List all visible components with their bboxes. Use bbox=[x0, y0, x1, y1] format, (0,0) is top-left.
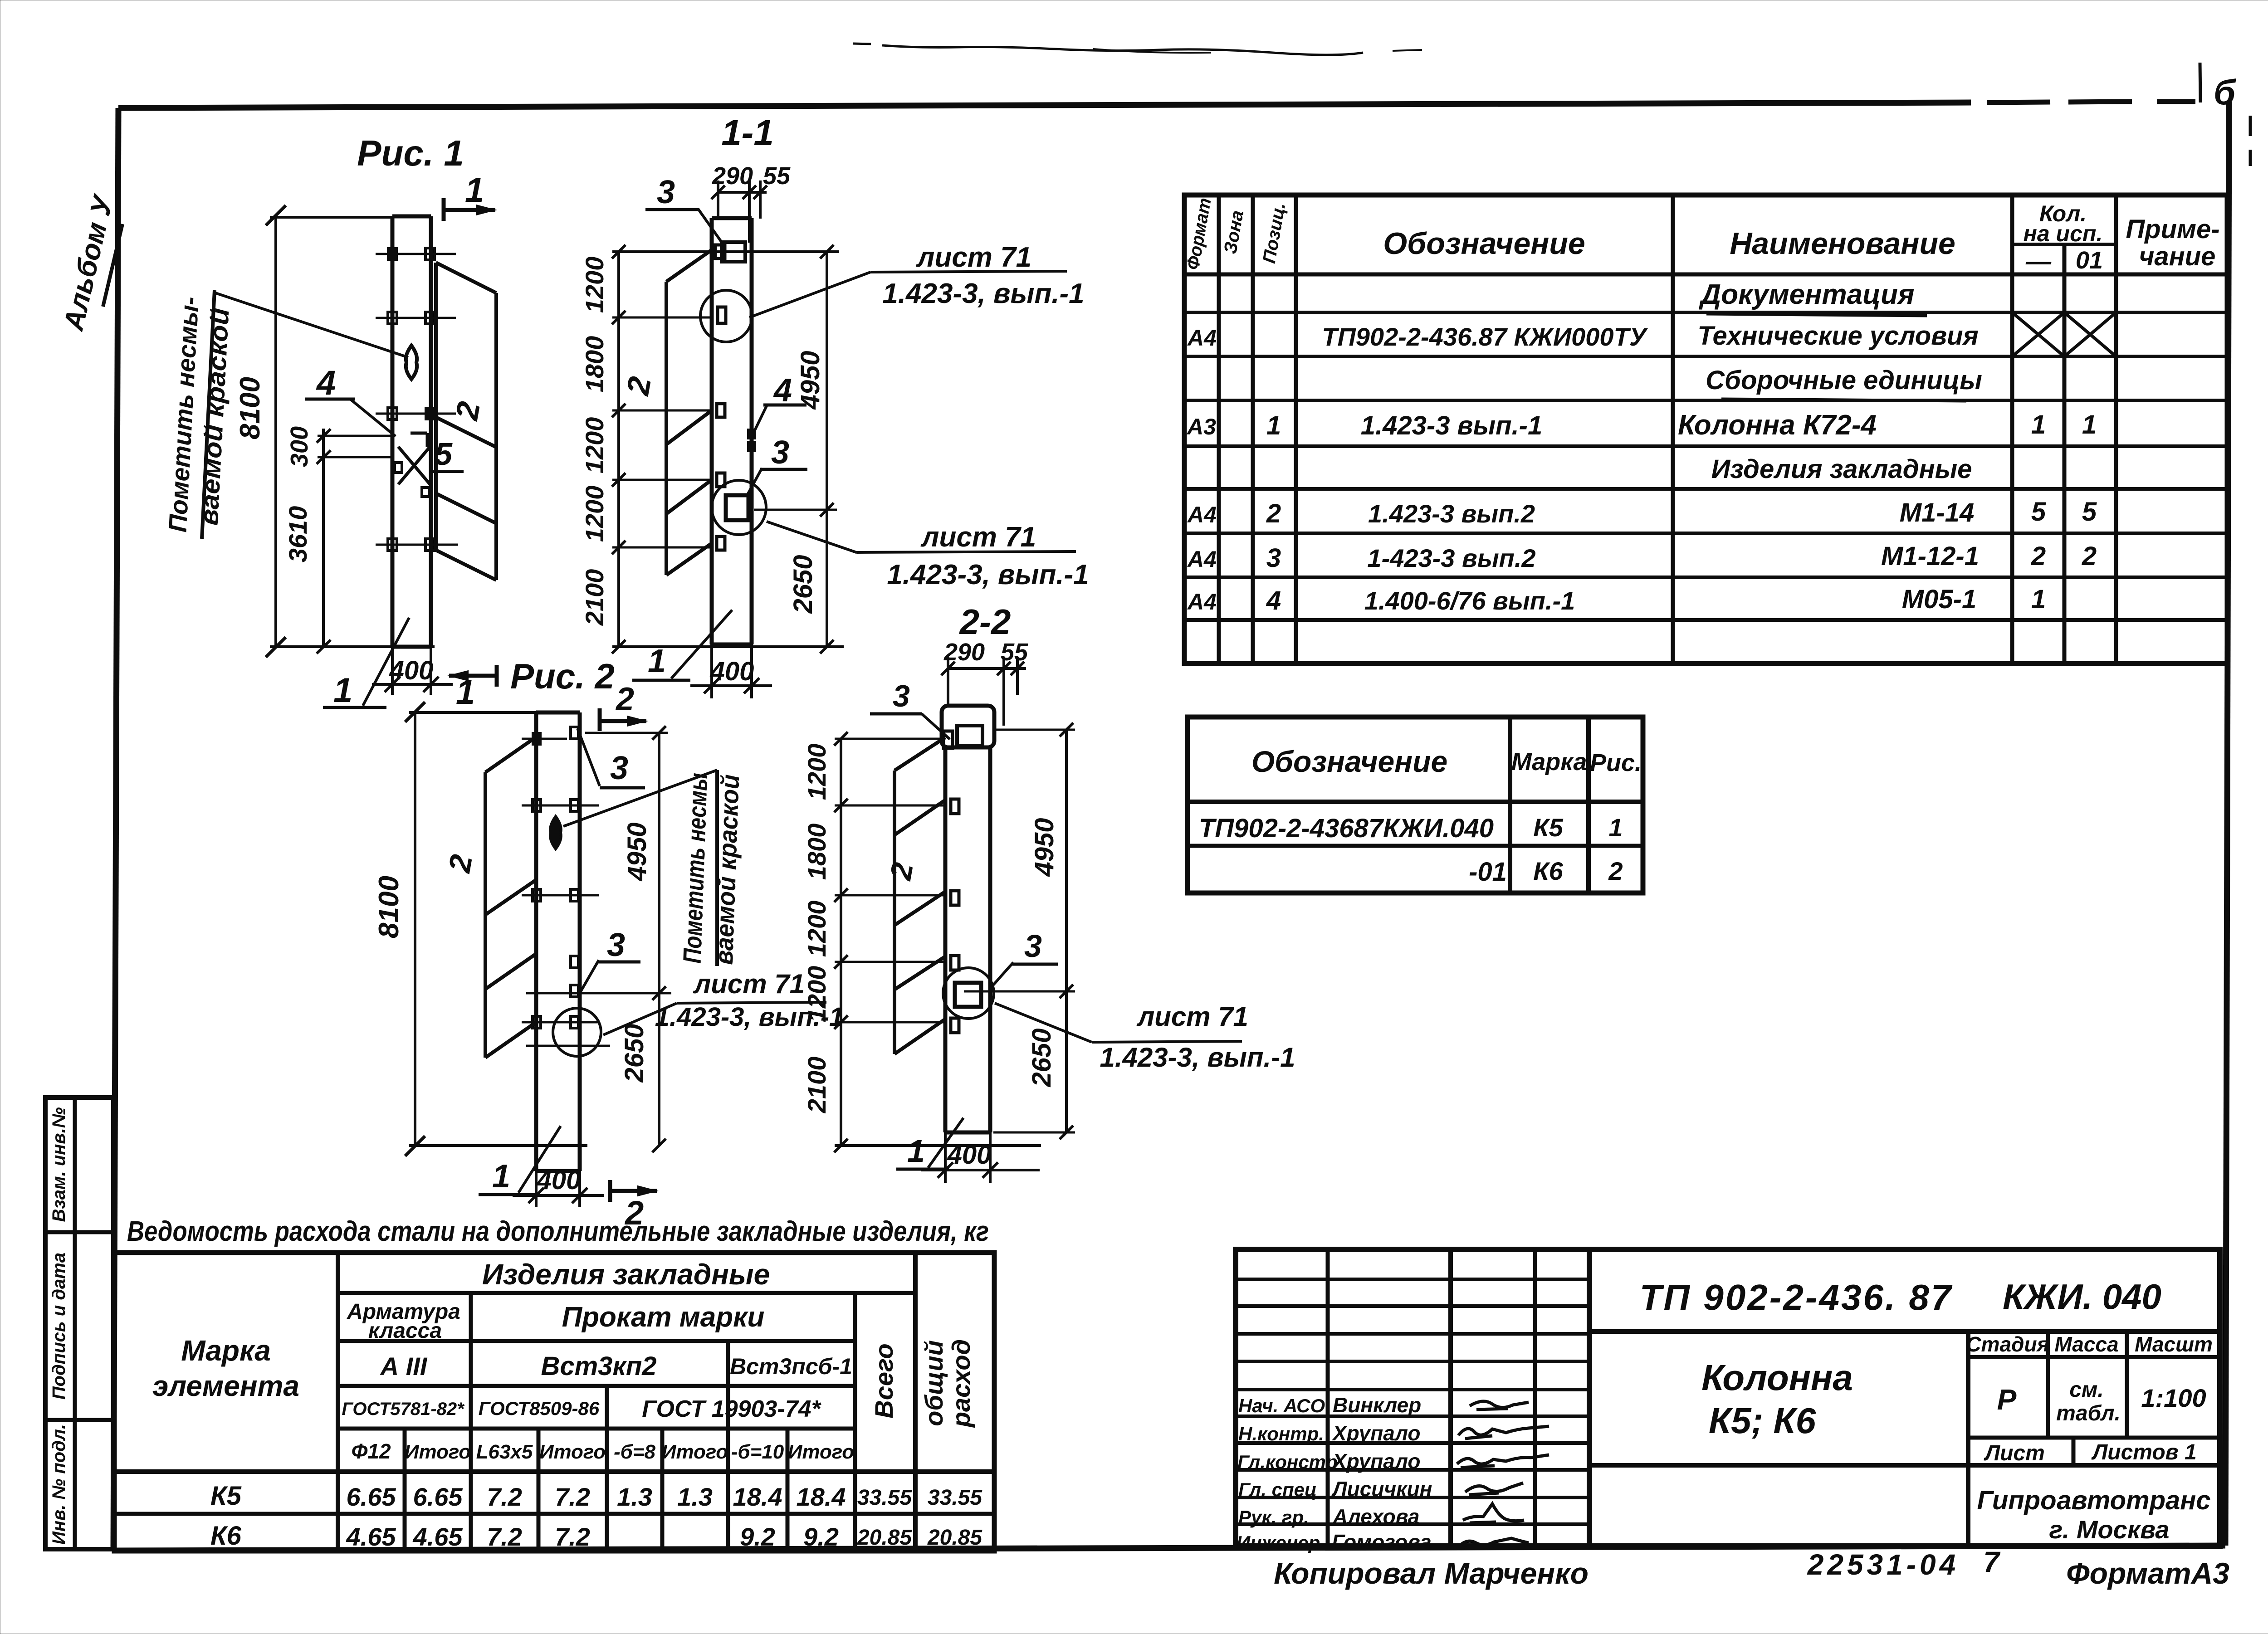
svg-text:Рук. гр.: Рук. гр. bbox=[1238, 1507, 1309, 1528]
svg-text:А4: А4 bbox=[1187, 325, 1217, 351]
detail circle bbox=[553, 1008, 601, 1056]
svg-text:ФорматА3: ФорматА3 bbox=[2066, 1556, 2229, 1590]
svg-text:1800: 1800 bbox=[802, 824, 831, 880]
embed marks bbox=[951, 799, 959, 814]
svg-text:табл.: табл. bbox=[2056, 1401, 2121, 1425]
svg-text:ГОСТ5781-82*: ГОСТ5781-82* bbox=[342, 1399, 465, 1419]
svg-text:А4: А4 bbox=[1187, 546, 1217, 572]
svg-text:Ведомость расхода стали на доп: Ведомость расхода стали на дополнительны… bbox=[127, 1216, 989, 1247]
svg-text:Рис. 1: Рис. 1 bbox=[357, 133, 464, 173]
svg-text:4950: 4950 bbox=[622, 822, 652, 881]
svg-text:6.65: 6.65 bbox=[347, 1483, 396, 1511]
svg-text:18.4: 18.4 bbox=[733, 1483, 782, 1511]
svg-text:Пометить несмы: Пометить несмы bbox=[678, 772, 713, 964]
svg-text:Обозначение: Обозначение bbox=[1251, 745, 1447, 778]
svg-text:Инженер: Инженер bbox=[1237, 1532, 1320, 1553]
svg-text:3: 3 bbox=[1266, 543, 1281, 573]
svg-text:см.: см. bbox=[2069, 1378, 2104, 1402]
svg-text:М1-12-1: М1-12-1 bbox=[1881, 541, 1979, 571]
dimension 400 (bottom) bbox=[391, 647, 394, 695]
paint mark diamond bbox=[406, 346, 417, 379]
column K6 body bbox=[534, 712, 538, 1171]
svg-text:Инв. № подл.: Инв. № подл. bbox=[49, 1424, 69, 1545]
svg-text:2: 2 bbox=[442, 852, 479, 876]
svg-text:1200: 1200 bbox=[580, 486, 609, 542]
section flag 1 (top) bbox=[442, 198, 446, 221]
svg-text:400: 400 bbox=[389, 656, 434, 685]
dimension 8100 (left) bbox=[414, 712, 416, 1146]
svg-text:лист 71: лист 71 bbox=[693, 969, 805, 999]
svg-text:Итого: Итого bbox=[405, 1441, 471, 1463]
svg-text:1: 1 bbox=[2031, 585, 2046, 614]
svg-text:2: 2 bbox=[615, 681, 634, 717]
svg-text:2: 2 bbox=[2082, 541, 2097, 571]
svg-text:4.65: 4.65 bbox=[346, 1522, 396, 1551]
svg-text:400: 400 bbox=[710, 657, 754, 686]
svg-text:1.3: 1.3 bbox=[617, 1483, 652, 1511]
svg-text:М1-14: М1-14 bbox=[1900, 498, 1974, 527]
svg-text:-01: -01 bbox=[1469, 857, 1507, 887]
signature squiggles bbox=[1470, 1401, 1529, 1410]
svg-text:7: 7 bbox=[1983, 1546, 2001, 1578]
right dim 4950 / 2650 bbox=[658, 733, 660, 1146]
svg-text:2-2: 2-2 bbox=[959, 602, 1011, 642]
corner mark 6 bbox=[2200, 63, 2250, 166]
svg-text:КЖИ. 040: КЖИ. 040 bbox=[2003, 1277, 2161, 1317]
svg-text:4: 4 bbox=[773, 372, 792, 409]
svg-text:5: 5 bbox=[2082, 497, 2097, 527]
svg-text:1: 1 bbox=[465, 171, 484, 210]
svg-text:2650: 2650 bbox=[788, 555, 818, 614]
svg-text:3: 3 bbox=[893, 679, 910, 713]
svg-text:ваемой краской: ваемой краской bbox=[709, 774, 745, 965]
svg-text:8100: 8100 bbox=[235, 377, 266, 439]
dimension 300 bbox=[322, 429, 325, 647]
svg-text:М05-1: М05-1 bbox=[1902, 585, 1976, 614]
svg-text:Марка: Марка bbox=[1511, 748, 1587, 776]
svg-text:1: 1 bbox=[492, 1158, 510, 1195]
svg-text:б: б bbox=[2214, 72, 2236, 112]
svg-text:А3: А3 bbox=[1186, 414, 1216, 439]
svg-text:Хрупало: Хрупало bbox=[1331, 1449, 1421, 1473]
svg-text:Копировал Марченко: Копировал Марченко bbox=[1274, 1556, 1589, 1590]
svg-text:чание: чание bbox=[2139, 242, 2216, 271]
svg-text:18.4: 18.4 bbox=[797, 1483, 846, 1511]
svg-text:Всего: Всего bbox=[870, 1343, 898, 1418]
svg-text:20.85: 20.85 bbox=[927, 1526, 982, 1550]
svg-text:1-423-3 вып.2: 1-423-3 вып.2 bbox=[1367, 544, 1535, 572]
plate 2 parallelogram (left) bbox=[894, 737, 945, 771]
svg-text:1.423-3 вып.2: 1.423-3 вып.2 bbox=[1368, 499, 1535, 528]
svg-text:А4: А4 bbox=[1187, 589, 1217, 615]
svg-text:ГОСТ8509-86: ГОСТ8509-86 bbox=[479, 1398, 600, 1419]
svg-text:7.2: 7.2 bbox=[555, 1522, 590, 1551]
svg-text:Винклер: Винклер bbox=[1333, 1393, 1421, 1417]
embed marks bbox=[717, 404, 725, 417]
left margin label "Альбом V" bbox=[58, 191, 122, 334]
svg-text:расход: расход bbox=[947, 1339, 975, 1428]
svg-text:Позиц.: Позиц. bbox=[1259, 201, 1290, 265]
svg-text:1: 1 bbox=[2082, 410, 2097, 439]
svg-text:Гипроавтотранс: Гипроавтотранс bbox=[1977, 1486, 2210, 1515]
svg-text:1200: 1200 bbox=[802, 744, 831, 800]
svg-text:1.423-3 вып.-1: 1.423-3 вып.-1 bbox=[1361, 411, 1543, 440]
detail items of pos.4 on right edge bbox=[748, 430, 755, 438]
svg-text:Взам. инв.№: Взам. инв.№ bbox=[49, 1107, 69, 1222]
svg-text:Колонна К72-4: Колонна К72-4 bbox=[1678, 410, 1877, 441]
svg-text:2100: 2100 bbox=[580, 569, 609, 626]
svg-text:1: 1 bbox=[1608, 813, 1623, 842]
left dim chain 1200 1800 1200 1200 2100 bbox=[840, 739, 842, 1146]
svg-text:на исп.: на исп. bbox=[2024, 221, 2103, 246]
svg-text:ГОСТ 19903-74*: ГОСТ 19903-74* bbox=[642, 1396, 821, 1422]
svg-text:Изделия закладные: Изделия закладные bbox=[482, 1258, 770, 1291]
svg-text:400: 400 bbox=[947, 1140, 992, 1170]
svg-text:Марка: Марка bbox=[181, 1334, 271, 1367]
left dim chain 1200 1800 1200 1200 2100 bbox=[617, 252, 620, 647]
svg-text:22531-04: 22531-04 bbox=[1807, 1548, 1959, 1581]
fold mark artifact top bbox=[853, 44, 1422, 55]
svg-text:1: 1 bbox=[456, 673, 475, 712]
svg-text:1: 1 bbox=[333, 671, 352, 710]
leader: paint note to diamond bbox=[563, 770, 717, 826]
column section outline with head bbox=[942, 706, 994, 747]
svg-text:Прокат марки: Прокат марки bbox=[562, 1302, 765, 1333]
svg-text:1:100: 1:100 bbox=[2141, 1384, 2206, 1412]
svg-text:К6: К6 bbox=[1533, 857, 1563, 885]
svg-text:А III: А III bbox=[380, 1352, 428, 1380]
svg-text:5: 5 bbox=[2031, 497, 2046, 527]
embed plate marks M1 on column bbox=[376, 253, 456, 255]
svg-text:9.2: 9.2 bbox=[803, 1522, 839, 1551]
svg-text:Алехова: Алехова bbox=[1332, 1505, 1420, 1528]
svg-text:8100: 8100 bbox=[373, 876, 405, 938]
svg-text:01: 01 bbox=[2076, 247, 2103, 274]
right dim 4950 / 2650 bbox=[1065, 730, 1068, 1132]
dimension 400 (bottom) bbox=[710, 644, 713, 698]
svg-text:Альбом У: Альбом У bbox=[58, 191, 119, 334]
svg-text:Рис.: Рис. bbox=[1590, 749, 1642, 776]
svg-text:4: 4 bbox=[1266, 586, 1281, 615]
svg-text:—: — bbox=[2025, 247, 2052, 275]
svg-text:Рис. 2: Рис. 2 bbox=[510, 656, 615, 696]
leader: paint note to diamond bbox=[215, 293, 408, 357]
svg-text:Обозначение: Обозначение bbox=[1383, 226, 1585, 261]
svg-text:К5; К6: К5; К6 bbox=[1709, 1400, 1816, 1441]
svg-text:400: 400 bbox=[537, 1166, 581, 1195]
svg-text:ТП902-2-43687КЖИ.040: ТП902-2-43687КЖИ.040 bbox=[1199, 814, 1494, 843]
svg-text:К6: К6 bbox=[210, 1521, 242, 1551]
svg-text:Хрупало: Хрупало bbox=[1331, 1421, 1421, 1445]
svg-text:2650: 2650 bbox=[1027, 1028, 1056, 1087]
svg-text:Лисичкин: Лисичкин bbox=[1331, 1477, 1432, 1501]
dimension 8100 (left) bbox=[274, 215, 277, 647]
svg-text:4950: 4950 bbox=[1030, 818, 1059, 877]
paint mark diamond bbox=[550, 816, 561, 849]
section flag 2 (top) bbox=[598, 708, 602, 731]
svg-text:лист 71: лист 71 bbox=[1136, 1001, 1248, 1032]
svg-text:Подпись и дата: Подпись и дата bbox=[49, 1253, 69, 1400]
svg-text:L63х5: L63х5 bbox=[476, 1441, 533, 1463]
svg-text:Стадия: Стадия bbox=[1966, 1332, 2049, 1356]
detail circle (bottom) bbox=[712, 480, 766, 535]
svg-text:2: 2 bbox=[2031, 541, 2046, 571]
svg-text:1: 1 bbox=[2031, 410, 2046, 439]
svg-text:1-1: 1-1 bbox=[721, 112, 774, 153]
svg-text:2: 2 bbox=[1608, 857, 1623, 885]
svg-text:ТП 902-2-436. 87: ТП 902-2-436. 87 bbox=[1640, 1277, 1953, 1317]
svg-text:1: 1 bbox=[648, 643, 666, 679]
svg-text:55: 55 bbox=[763, 162, 791, 190]
svg-text:2100: 2100 bbox=[802, 1057, 831, 1114]
svg-text:4: 4 bbox=[316, 364, 336, 402]
svg-text:Листов 1: Листов 1 bbox=[2091, 1440, 2196, 1464]
svg-text:Формат: Формат bbox=[1183, 196, 1215, 271]
plate 2 parallelogram (right) bbox=[436, 263, 496, 293]
column section outline bbox=[710, 218, 714, 644]
svg-text:класса: класса bbox=[368, 1319, 442, 1343]
svg-text:Масса: Масса bbox=[2054, 1332, 2118, 1356]
svg-text:33.55: 33.55 bbox=[857, 1486, 912, 1510]
left margin stamp boxes bbox=[45, 1097, 113, 1549]
svg-text:общий: общий bbox=[919, 1340, 948, 1426]
svg-text:7.2: 7.2 bbox=[487, 1522, 522, 1551]
svg-text:290: 290 bbox=[943, 639, 985, 666]
dimension 400 (bottom) bbox=[535, 1171, 538, 1207]
footer notes bbox=[1274, 1546, 2229, 1590]
detail circle (top) bbox=[700, 290, 752, 342]
detail circle bbox=[943, 968, 994, 1019]
svg-text:Итого: Итого bbox=[788, 1441, 854, 1463]
svg-text:Документация: Документация bbox=[1698, 279, 1914, 310]
svg-text:К5: К5 bbox=[210, 1481, 242, 1511]
embed plate marks bbox=[522, 738, 567, 740]
svg-text:Технические условия: Технические условия bbox=[1697, 321, 1979, 351]
svg-text:Гл.констр: Гл.констр bbox=[1237, 1451, 1338, 1473]
svg-text:2: 2 bbox=[449, 399, 487, 424]
svg-text:1200: 1200 bbox=[580, 257, 609, 313]
signature grid bbox=[1326, 1249, 1330, 1546]
svg-text:6.65: 6.65 bbox=[413, 1483, 463, 1511]
svg-text:Итого: Итого bbox=[539, 1441, 606, 1463]
plate 2 parallelogram (left) bbox=[485, 737, 536, 772]
svg-text:Нач. АСО: Нач. АСО bbox=[1238, 1395, 1325, 1416]
svg-text:20.85: 20.85 bbox=[857, 1526, 912, 1550]
svg-text:Масшт: Масшт bbox=[2135, 1332, 2213, 1356]
section flag 2 (bottom) bbox=[608, 1180, 612, 1202]
svg-text:1: 1 bbox=[907, 1133, 925, 1169]
svg-text:Сборочные единицы: Сборочные единицы bbox=[1706, 366, 1982, 395]
svg-text:1.423-3, вып.-1: 1.423-3, вып.-1 bbox=[1100, 1042, 1295, 1073]
svg-text:3610: 3610 bbox=[283, 506, 312, 563]
svg-text:лист 71: лист 71 bbox=[916, 242, 1031, 273]
svg-text:1800: 1800 bbox=[580, 336, 609, 393]
svg-text:-б=10: -б=10 bbox=[731, 1441, 784, 1463]
svg-text:1200: 1200 bbox=[580, 417, 609, 474]
svg-text:7.2: 7.2 bbox=[487, 1483, 522, 1511]
svg-text:Итого: Итого bbox=[662, 1441, 728, 1463]
svg-text:3: 3 bbox=[1024, 928, 1042, 964]
svg-text:4950: 4950 bbox=[796, 351, 825, 410]
svg-text:лист 71: лист 71 bbox=[920, 522, 1036, 553]
svg-text:Приме-: Приме- bbox=[2126, 215, 2219, 244]
svg-text:Лист: Лист bbox=[1984, 1441, 2045, 1465]
svg-text:2: 2 bbox=[1266, 499, 1281, 528]
dimension 400 (bottom) bbox=[944, 1132, 947, 1183]
svg-text:Н.контр.: Н.контр. bbox=[1238, 1423, 1324, 1444]
svg-text:Гомозова: Гомозова bbox=[1332, 1530, 1432, 1554]
svg-text:3: 3 bbox=[771, 434, 789, 471]
svg-text:1.400-6/76 вып.-1: 1.400-6/76 вып.-1 bbox=[1364, 586, 1575, 615]
svg-text:ТП902-2-436.87 КЖИ000ТУ: ТП902-2-436.87 КЖИ000ТУ bbox=[1322, 322, 1648, 351]
svg-text:Изделия закладные: Изделия закладные bbox=[1711, 454, 1972, 484]
svg-text:1200: 1200 bbox=[802, 966, 831, 1023]
svg-text:1200: 1200 bbox=[802, 901, 831, 957]
svg-text:Наименование: Наименование bbox=[1730, 226, 1955, 261]
svg-text:2: 2 bbox=[883, 860, 919, 883]
svg-text:3: 3 bbox=[657, 174, 675, 210]
top embed plate bbox=[722, 242, 745, 262]
svg-text:1.423-3, вып.-1: 1.423-3, вып.-1 bbox=[887, 559, 1089, 590]
svg-text:1.423-3, вып.-1: 1.423-3, вып.-1 bbox=[882, 278, 1084, 309]
main area grid bbox=[1589, 1329, 2220, 1334]
svg-text:300: 300 bbox=[286, 426, 313, 467]
head embed plate bbox=[957, 726, 982, 746]
svg-text:4.65: 4.65 bbox=[413, 1522, 463, 1551]
svg-text:-б=8: -б=8 bbox=[614, 1441, 656, 1463]
svg-text:г. Москва: г. Москва bbox=[2049, 1515, 2170, 1544]
svg-text:Вст3псб-1: Вст3псб-1 bbox=[730, 1354, 852, 1379]
svg-text:9.2: 9.2 bbox=[740, 1522, 775, 1551]
svg-text:Гл. спец: Гл. спец bbox=[1238, 1479, 1317, 1500]
svg-text:А4: А4 bbox=[1187, 502, 1217, 527]
svg-text:Вст3кп2: Вст3кп2 bbox=[541, 1351, 656, 1381]
svg-text:Р: Р bbox=[1997, 1383, 2017, 1416]
svg-text:33.55: 33.55 bbox=[928, 1486, 982, 1510]
svg-text:1.3: 1.3 bbox=[677, 1483, 713, 1511]
svg-text:элемента: элемента bbox=[152, 1370, 299, 1402]
svg-text:К5: К5 bbox=[1533, 813, 1563, 842]
svg-text:2650: 2650 bbox=[620, 1024, 649, 1083]
svg-text:Ф12: Ф12 bbox=[351, 1439, 391, 1463]
svg-text:3: 3 bbox=[610, 750, 628, 786]
svg-text:2: 2 bbox=[620, 374, 658, 399]
svg-text:Колонна: Колонна bbox=[1701, 1357, 1853, 1398]
detail 4/5 assembly on column bbox=[411, 432, 427, 435]
svg-text:Зона: Зона bbox=[1220, 209, 1247, 255]
svg-text:3: 3 bbox=[607, 927, 625, 963]
column K5 body bbox=[391, 216, 395, 647]
svg-text:7.2: 7.2 bbox=[555, 1483, 590, 1511]
svg-text:1: 1 bbox=[1266, 411, 1281, 440]
right dim 4950 / 2650 bbox=[826, 252, 828, 647]
section flag 1 (bottom) bbox=[495, 665, 499, 687]
plate 2 parallelogram (left) bbox=[666, 250, 712, 282]
